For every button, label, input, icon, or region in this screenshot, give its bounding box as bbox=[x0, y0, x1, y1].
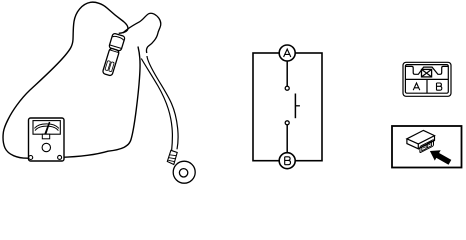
node A terminal circle bbox=[279, 45, 295, 61]
lock box X bbox=[422, 69, 432, 77]
wire: harness loop from probe plug bbox=[123, 13, 161, 53]
switch lever tick bbox=[295, 105, 300, 107]
meter display window bbox=[33, 121, 60, 135]
meter scale arc upper bbox=[35, 124, 59, 129]
ring terminal outer circle bbox=[173, 161, 195, 183]
switch lever bbox=[294, 94, 296, 119]
meter scale arc lower bbox=[35, 126, 58, 131]
connector inner shell bbox=[405, 65, 448, 94]
connector cavity profile bbox=[405, 66, 448, 74]
wire: meter right lead bbox=[60, 47, 140, 158]
wire from A to switch bbox=[286, 61, 288, 86]
plug body bbox=[102, 48, 119, 76]
connector outer shell bbox=[403, 62, 451, 96]
meter left terminal bbox=[29, 156, 33, 160]
location box frame bbox=[392, 126, 462, 168]
plug neck line bbox=[110, 45, 121, 48]
connector lock box bbox=[422, 69, 432, 77]
ring terminal crimp barrel bbox=[167, 150, 177, 164]
terminal A label bbox=[413, 83, 420, 90]
meter pivot box bbox=[42, 134, 49, 139]
switch contact bottom bbox=[285, 121, 289, 125]
meter knob bbox=[42, 143, 50, 151]
wire: harness double-line wire to ring terminal (right stroke) bbox=[147, 56, 178, 149]
connector socket on face bbox=[420, 139, 434, 152]
node B label bbox=[285, 157, 291, 165]
wire: harness double-line wire to ring terminal (left stroke) bbox=[141, 59, 172, 151]
pointer arrow bbox=[427, 146, 453, 168]
connector cell divider bbox=[426, 79, 428, 93]
plug collar bbox=[109, 33, 125, 51]
wire: meter left lead big loop bbox=[3, 2, 128, 158]
3d connector right face bbox=[418, 136, 434, 149]
socket rim bbox=[420, 139, 434, 152]
3d connector top face bbox=[407, 130, 435, 144]
meter right terminal bbox=[58, 155, 62, 159]
socket cavity 1 bbox=[422, 144, 426, 150]
socket cavity 2 bbox=[427, 141, 431, 147]
node A label bbox=[284, 49, 291, 57]
analog ohmmeter body bbox=[29, 118, 65, 161]
connector probe plug (tilted cylinder pair) bbox=[101, 33, 125, 77]
connector horizontal divider bbox=[405, 78, 448, 80]
meter needle bbox=[44, 122, 51, 136]
node B terminal circle bbox=[279, 153, 295, 169]
ring terminal hole bbox=[179, 169, 187, 177]
crimp hatching bbox=[168, 155, 176, 162]
switch contact top bbox=[285, 86, 289, 90]
schematic loop rectangle bbox=[253, 53, 322, 161]
wire from switch to B bbox=[286, 125, 288, 153]
plug terminal slots bbox=[105, 61, 111, 71]
terminal B label bbox=[437, 83, 442, 90]
3d connector left face bbox=[407, 139, 418, 149]
